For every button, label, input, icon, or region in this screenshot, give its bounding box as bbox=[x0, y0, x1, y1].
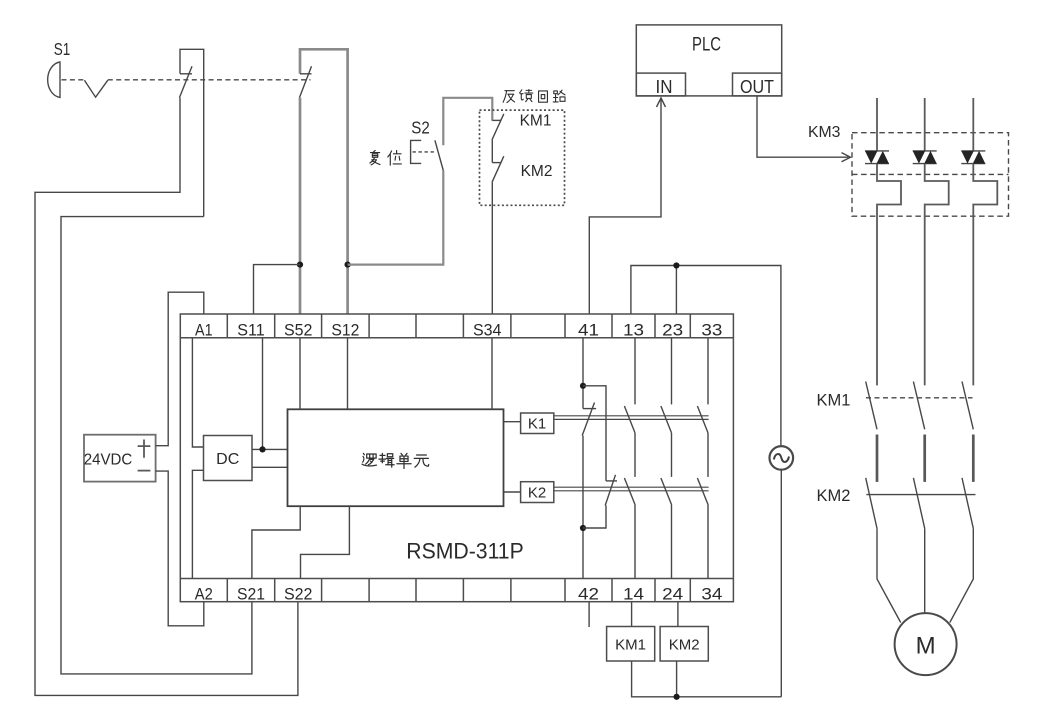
phase bars between KM1 and KM2 bbox=[877, 435, 973, 482]
wire 24 to KM2 coil bbox=[677, 602, 679, 627]
S1 actuator linkage dashed bbox=[62, 79, 311, 81]
logic unit box bbox=[288, 409, 504, 506]
terminal 23 bbox=[662, 321, 683, 340]
bus 13/23 to AC source bbox=[631, 266, 781, 447]
svg-text:41: 41 bbox=[578, 321, 599, 340]
wire KM1 coil return bbox=[632, 661, 782, 697]
PLC IN port bbox=[636, 73, 685, 97]
top terminal strip bbox=[180, 314, 733, 338]
KM2 linkage solid bbox=[866, 494, 975, 496]
svg-text:A1: A1 bbox=[195, 321, 213, 340]
terminal S21 bbox=[237, 585, 265, 604]
terminal 34 bbox=[701, 585, 722, 604]
svg-text:OUT: OUT bbox=[740, 76, 774, 97]
feedback loop dotted box bbox=[480, 110, 565, 205]
NO contact column 23-24 bbox=[661, 338, 672, 579]
wire S52 internal bbox=[299, 338, 301, 410]
svg-text:KM2: KM2 bbox=[521, 163, 553, 180]
sensor S1 label bbox=[54, 39, 71, 59]
plus symbol bbox=[138, 440, 151, 458]
wire 23 top bbox=[675, 266, 677, 315]
junction dot 42 bottom bbox=[580, 525, 586, 531]
svg-text:IN: IN bbox=[656, 76, 673, 97]
wire AC source to coils common bbox=[780, 470, 782, 697]
PLC box bbox=[636, 25, 781, 96]
S2 actuator bracket bbox=[411, 140, 436, 163]
svg-text:S1: S1 bbox=[54, 39, 71, 59]
svg-text:23: 23 bbox=[662, 321, 683, 340]
terminal S52 bbox=[284, 321, 313, 340]
terminal A2 bbox=[195, 585, 213, 604]
triac phase L2 bbox=[913, 98, 949, 385]
wire logic to K2 bbox=[504, 491, 521, 493]
wire logic to K1 bbox=[504, 421, 521, 423]
KM2 feedback label bbox=[521, 163, 553, 180]
logic unit label (luojidanyuan) bbox=[362, 453, 376, 466]
24VDC supply box bbox=[84, 435, 156, 482]
terminal 13 bbox=[623, 321, 644, 340]
svg-text:KM1: KM1 bbox=[615, 637, 646, 654]
svg-text:13: 13 bbox=[623, 321, 644, 340]
KM2 contact L1 bbox=[866, 478, 877, 529]
minus symbol bbox=[138, 470, 151, 472]
svg-text:KM1: KM1 bbox=[817, 392, 851, 410]
reset button S2 label bbox=[411, 117, 430, 137]
wire logic to S21 bbox=[252, 506, 300, 578]
KM2 contact L3 bbox=[962, 478, 973, 529]
wire S11 internal bbox=[262, 338, 264, 450]
motor feed wires bbox=[877, 528, 973, 622]
terminal 24 bbox=[662, 585, 683, 604]
NC contact column 41-42 bbox=[582, 338, 596, 579]
triac phase L3 bbox=[961, 98, 997, 385]
motor M bbox=[895, 613, 957, 675]
svg-text:A2: A2 bbox=[195, 585, 213, 604]
wire A1 to DC bbox=[192, 338, 203, 447]
contactor coil KM1 bbox=[607, 627, 655, 662]
svg-text:24: 24 bbox=[662, 585, 683, 604]
svg-text:S52: S52 bbox=[284, 321, 313, 340]
terminal 41 bbox=[578, 321, 599, 340]
contactor coil KM2 bbox=[660, 627, 708, 662]
svg-text:DC: DC bbox=[216, 451, 239, 468]
svg-text:42: 42 bbox=[578, 585, 599, 604]
relay K1 bbox=[521, 413, 554, 434]
KM1 contact L1 bbox=[866, 382, 877, 430]
S1 NC contact channel 2 (thick gray) bbox=[299, 49, 347, 314]
wire S34 internal bbox=[491, 338, 493, 410]
KM1 NC feedback contact bbox=[492, 114, 504, 163]
sensor S1 head bbox=[48, 62, 60, 97]
S2 NO contact bbox=[435, 140, 443, 170]
wire contact1 to S21 loop bbox=[61, 217, 252, 674]
junction dot 41 top bbox=[580, 383, 586, 389]
K1 linkage lines bbox=[554, 416, 709, 420]
feedback loop label (fankuihuilu) bbox=[503, 91, 515, 103]
KM3 dashed enclosure bbox=[852, 133, 1009, 217]
wire 14 to KM1 coil bbox=[631, 602, 633, 627]
S1 actuator V notch bbox=[84, 80, 107, 97]
KM3 label bbox=[808, 124, 841, 141]
svg-text:S22: S22 bbox=[284, 585, 313, 604]
KM1 linkage dashed bbox=[866, 397, 973, 399]
terminal A1 bbox=[195, 321, 213, 340]
S1 NC contact channel 1 (thin) bbox=[179, 49, 203, 216]
KM1 feedback label bbox=[520, 113, 552, 130]
svg-text:14: 14 bbox=[623, 585, 644, 604]
PLC OUT port bbox=[733, 73, 782, 97]
terminal S11 bbox=[237, 321, 265, 340]
terminal 33 bbox=[701, 321, 722, 340]
terminal 42 bbox=[578, 585, 599, 604]
NC bypass branch K2 bbox=[583, 386, 617, 528]
triac phase L1 bbox=[865, 98, 901, 385]
svg-text:KM2: KM2 bbox=[817, 487, 851, 505]
svg-text:24VDC: 24VDC bbox=[84, 452, 133, 469]
wire logic to S22 bbox=[301, 506, 350, 578]
terminal S34 bbox=[473, 321, 502, 340]
svg-text:34: 34 bbox=[701, 585, 722, 604]
svg-text:S12: S12 bbox=[331, 321, 359, 340]
wire S2 upper to feedback (gray) bbox=[443, 98, 492, 146]
wire KM2 coil return bbox=[676, 661, 678, 697]
terminal S12 bbox=[331, 321, 359, 340]
NO contact column 33-34 bbox=[697, 338, 708, 579]
KM1 contact L2 bbox=[913, 382, 924, 430]
svg-text:S2: S2 bbox=[411, 117, 430, 137]
wire 41 to PLC IN with arrow bbox=[589, 98, 665, 314]
K2 linkage lines bbox=[554, 487, 709, 491]
svg-text:33: 33 bbox=[701, 321, 722, 340]
svg-text:PLC: PLC bbox=[692, 35, 721, 56]
wire 24VDC- to A2 bbox=[156, 471, 204, 626]
terminal S22 bbox=[284, 585, 313, 604]
svg-text:KM1: KM1 bbox=[520, 113, 552, 130]
NO contact column 13-14 bbox=[624, 338, 635, 579]
model label RSMD-311P bbox=[406, 539, 524, 564]
DC converter box bbox=[204, 436, 253, 481]
wire S12 internal bbox=[347, 338, 349, 410]
KM1 contact L3 bbox=[962, 382, 973, 430]
reset label (fuwei) bbox=[370, 150, 380, 164]
junction dot coil return bbox=[674, 694, 680, 700]
contactor KM1 label (right bank) bbox=[817, 392, 851, 410]
svg-text:K2: K2 bbox=[528, 485, 546, 502]
stub terminal 42 bbox=[588, 602, 590, 627]
bottom terminal strip bbox=[180, 579, 733, 602]
svg-text:S11: S11 bbox=[237, 321, 265, 340]
junction dot S11/DC bbox=[259, 446, 265, 452]
svg-text:S21: S21 bbox=[237, 585, 265, 604]
KM2 NC feedback contact bbox=[492, 156, 504, 314]
junction dot S12/S2 bbox=[345, 262, 351, 268]
wires DC to logic bbox=[252, 449, 288, 467]
wire contact1 to S22 loop bbox=[35, 98, 298, 696]
terminal 14 bbox=[623, 585, 644, 604]
wire PLC OUT to KM3 with arrow bbox=[757, 96, 851, 162]
wire DC to A2 bbox=[192, 470, 203, 578]
svg-text:M: M bbox=[916, 633, 936, 660]
svg-text:S34: S34 bbox=[473, 321, 502, 340]
relay K2 bbox=[521, 482, 554, 503]
contactor KM2 label (right bank) bbox=[817, 487, 851, 505]
svg-text:K1: K1 bbox=[528, 416, 546, 433]
wire S11 link bbox=[254, 265, 301, 314]
wire 24VDC+ to A1 bbox=[156, 292, 204, 446]
svg-text:RSMD-311P: RSMD-311P bbox=[406, 539, 524, 564]
wire S52 (thick) bbox=[299, 98, 302, 314]
KM2 contact L2 bbox=[913, 478, 924, 529]
svg-text:KM2: KM2 bbox=[669, 637, 700, 654]
junction dot S52/S11 bbox=[297, 262, 303, 268]
wire S2 lower (gray) bbox=[348, 171, 444, 265]
junction dot bus 23 bbox=[673, 262, 679, 268]
svg-text:KM3: KM3 bbox=[808, 124, 841, 141]
relay box outline bbox=[180, 314, 733, 602]
AC source bbox=[770, 446, 794, 470]
